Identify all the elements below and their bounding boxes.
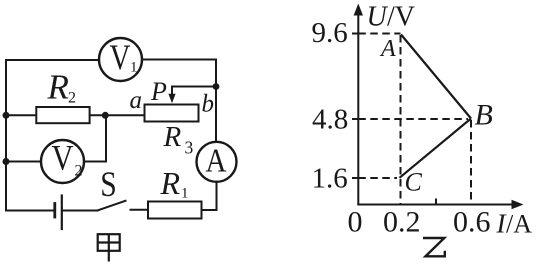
label R1 [160,165,189,202]
label V1 [110,37,138,77]
y value 9.6 [312,17,348,49]
slider P arm with arrowhead [168,87,175,104]
voltmeter V2 [41,140,84,183]
point label A [379,36,396,62]
svg-text:3: 3 [185,138,194,158]
svg-text:A: A [206,142,227,179]
svg-text:4.8: 4.8 [312,104,348,136]
svg-text:0: 0 [348,206,363,239]
svg-text:0.6: 0.6 [453,206,491,239]
node a label [130,87,143,114]
wire left rail [5,60,7,211]
svg-text:b: b [202,90,215,117]
svg-text:R: R [160,165,181,201]
y tick 1.6 [352,177,358,179]
dashed vertical I=0.6 [470,120,472,204]
dashed vertical I=0.2 [400,35,402,204]
axis label I/A [496,209,533,239]
svg-text:A: A [379,36,396,62]
wire battery bottom left [6,210,53,212]
switch S blade [98,201,126,211]
x axis I [357,204,514,206]
node junction R2/V2 [102,112,109,119]
dashed guide 1.6 to C [358,177,397,179]
x value 0.2 [383,206,421,239]
voltmeter V1 [99,38,142,81]
label 乙 (figure 2 caption, drawn strokes) [423,238,445,256]
node b label [202,90,215,117]
x value 0 [348,206,363,239]
label A (ammeter) [206,142,227,179]
rheostat R3 body [145,105,199,122]
node junction left-rail / V2 wire [3,158,10,165]
svg-text:U: U [367,1,389,32]
x value 0.6 [453,206,491,239]
svg-text:V: V [52,137,74,177]
resistor R2 [36,107,89,123]
svg-text:R: R [163,121,182,153]
svg-text:1: 1 [130,60,138,76]
svg-text:C: C [405,168,423,197]
line segment A-B [401,35,471,119]
y value 1.6 [312,163,348,195]
svg-text:/V: /V [387,1,415,32]
y tick 9.6 [352,33,358,35]
label S (switch) [100,164,117,204]
svg-text:R: R [47,68,69,107]
svg-text:0.2: 0.2 [383,206,421,239]
point label B [475,99,493,132]
svg-text:9.6: 9.6 [312,17,348,49]
wire slider P to right rail [172,86,216,88]
wire V2 left [6,161,42,163]
resistor R1 [148,202,202,219]
label R3 [163,121,194,157]
axis label U/V [367,1,416,32]
slider P label [150,77,167,106]
ammeter A [197,142,237,182]
svg-text:P: P [150,77,167,106]
wire switch contact to R1 [131,209,149,211]
wire battery to switch [63,210,98,212]
svg-text:B: B [475,99,493,132]
battery positive plate (long) [61,196,63,230]
label R2 [47,68,77,107]
wire V2 right up to R2 wire [84,115,106,161]
svg-text:/A: /A [506,210,532,239]
wire top left to V1 [6,59,99,61]
line segment C-B [400,119,472,178]
svg-text:1: 1 [181,186,189,202]
dashed guide 4.8 to B [358,118,468,120]
y value 4.8 [312,104,348,136]
label V2 [52,137,83,179]
svg-text:a: a [130,87,143,114]
svg-text:2: 2 [75,163,83,180]
svg-text:1.6: 1.6 [312,163,348,195]
point label C [405,168,423,197]
x tick 0.4 [435,199,437,205]
wire R2 branch horizontal [6,114,145,116]
node junction left-rail / R2 wire [3,112,10,119]
svg-text:V: V [110,37,131,77]
I-U graph: y axis U [357,12,359,205]
dashed guide 9.6 to A [358,33,400,35]
battery negative plate (short) [53,204,56,218]
node junction slider/right-rail [213,83,220,90]
y tick 4.8 [352,118,358,120]
label 甲 (figure 1 caption, drawn strokes) [98,234,120,261]
wire R1 to ammeter [202,182,217,210]
wire V1 right to top-right corner and down right rail [142,60,216,142]
svg-text:S: S [100,164,117,204]
svg-text:2: 2 [68,90,76,107]
